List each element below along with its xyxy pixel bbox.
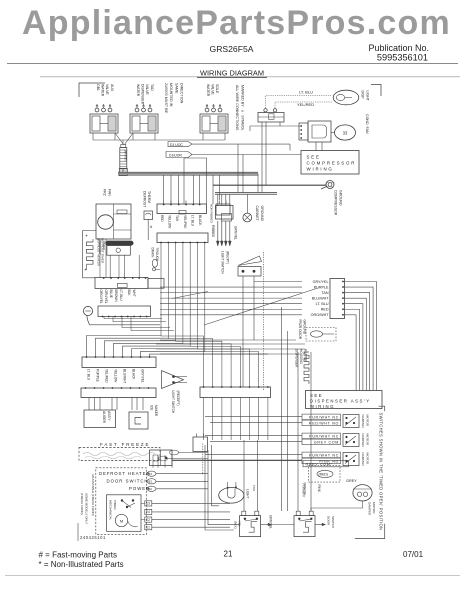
svg-text:33: 33 xyxy=(343,130,348,135)
svg-text:B3: B3 xyxy=(148,480,152,484)
svg-text:GRN/YEL: GRN/YEL xyxy=(234,226,238,240)
svg-text:GREY: GREY xyxy=(346,479,357,483)
svg-text:DAMPER: DAMPER xyxy=(361,453,365,467)
svg-text:ORG/WHT: ORG/WHT xyxy=(311,313,330,317)
svg-text:TAN: TAN xyxy=(252,485,256,491)
svg-text:# = Fast-moving Parts: # = Fast-moving Parts xyxy=(39,551,117,560)
svg-text:GRY/YEL: GRY/YEL xyxy=(313,280,329,284)
svg-text:BLU/WHT: BLU/WHT xyxy=(123,369,127,383)
svg-text:GRY/YEL: GRY/YEL xyxy=(141,369,145,383)
svg-text:COMPRESSOR: COMPRESSOR xyxy=(334,190,338,216)
svg-text:BLUE: BLUE xyxy=(109,290,113,298)
svg-text:B4: B4 xyxy=(148,472,152,476)
svg-text:GROUND: GROUND xyxy=(338,190,342,206)
svg-text:21000S MUST BE: 21000S MUST BE xyxy=(164,83,168,114)
svg-text:FRZ: FRZ xyxy=(103,189,107,197)
svg-text:ICE: ICE xyxy=(150,405,154,410)
svg-text:PUR/WHT: PUR/WHT xyxy=(302,484,306,498)
svg-text:WATER: WATER xyxy=(206,84,210,97)
svg-text:PUR/WHT NC: PUR/WHT NC xyxy=(309,453,339,457)
svg-text:LT. BLU: LT. BLU xyxy=(316,302,329,306)
svg-text:OBL: OBL xyxy=(96,84,100,91)
svg-text:D1/UOR: D1/UOR xyxy=(169,154,182,158)
svg-text:COND. FAN: COND. FAN xyxy=(365,114,369,134)
svg-text:TAN: TAN xyxy=(175,215,179,222)
svg-text:TAN: TAN xyxy=(321,291,328,295)
svg-text:(RECEPT): (RECEPT) xyxy=(176,391,180,406)
svg-text:GROUND: GROUND xyxy=(260,206,264,222)
svg-text:SEE: SEE xyxy=(307,155,321,160)
svg-text:DISPENSER ASS'Y: DISPENSER ASS'Y xyxy=(310,399,371,404)
svg-text:FRZR DOOR: FRZR DOOR xyxy=(298,320,302,340)
svg-text:PURPLE: PURPLE xyxy=(96,369,100,382)
svg-text:TAD: TAD xyxy=(150,84,154,91)
svg-text:MOTOR: MOTOR xyxy=(372,502,376,514)
svg-text:YEL/PNK: YEL/PNK xyxy=(183,215,187,229)
svg-text:VALVE: VALVE xyxy=(211,84,215,95)
svg-text:BLACK: BLACK xyxy=(198,215,202,226)
svg-text:PINK: PINK xyxy=(317,485,321,493)
svg-text:SWITCH: SWITCH xyxy=(331,516,335,528)
svg-text:GRN/YEL: GRN/YEL xyxy=(104,290,108,304)
svg-text:GRN/YEL: GRN/YEL xyxy=(269,515,273,529)
svg-text:DISP: DISP xyxy=(361,91,365,100)
svg-text:LIGHT: LIGHT xyxy=(246,489,250,498)
svg-text:(BLK): (BLK) xyxy=(234,521,238,529)
svg-text:SWITCHES SHOWN IN THE 'TIMED O: SWITCHES SHOWN IN THE 'TIMED OPEN' POSIT… xyxy=(379,413,384,531)
svg-text:MOTOR: MOTOR xyxy=(365,453,369,465)
svg-text:SOME MODELS ONLY: SOME MODELS ONLY xyxy=(84,493,88,524)
svg-text:M: M xyxy=(120,518,123,523)
svg-text:TROUGH: TROUGH xyxy=(155,248,159,263)
svg-text:DOOR SWITCH: DOOR SWITCH xyxy=(107,479,149,484)
svg-text:MOTOR: MOTOR xyxy=(365,415,369,427)
svg-text:BROWN: BROWN xyxy=(114,290,118,303)
svg-text:E4: E4 xyxy=(146,510,150,514)
svg-text:FAST FREEZE: FAST FREEZE xyxy=(100,442,150,447)
svg-text:DAMPER: DAMPER xyxy=(361,434,365,448)
svg-text:WATER: WATER xyxy=(136,84,140,97)
svg-text:YEL: YEL xyxy=(238,521,242,527)
svg-text:RED: RED xyxy=(160,215,164,222)
svg-text:WIRING DIAGRAM: WIRING DIAGRAM xyxy=(200,69,264,78)
svg-text:MAKER: MAKER xyxy=(154,405,158,417)
svg-text:DOOR: DOOR xyxy=(327,516,331,526)
svg-text:DEFROST: DEFROST xyxy=(143,191,147,207)
svg-text:RED/WHT NO: RED/WHT NO xyxy=(309,421,339,425)
svg-text:ASS'Y: ASS'Y xyxy=(107,411,111,421)
svg-text:D1 UOC: D1 UOC xyxy=(170,143,183,147)
svg-text:GREY COM*: GREY COM* xyxy=(306,463,333,467)
svg-text:WIRING: WIRING xyxy=(310,404,335,409)
svg-text:DAMPER: DAMPER xyxy=(361,415,365,429)
svg-text:B2: B2 xyxy=(148,487,152,491)
svg-text:CABINET: CABINET xyxy=(255,206,259,222)
svg-text:MOTOR: MOTOR xyxy=(365,434,369,446)
svg-text:AppliancePartsPros.com: AppliancePartsPros.com xyxy=(22,4,451,42)
svg-text:WHT: WHT xyxy=(132,290,136,297)
svg-text:ORG/YEL: ORG/YEL xyxy=(99,290,103,304)
svg-text:NON-RIBBED: NON-RIBBED xyxy=(210,204,214,224)
svg-text:AUX: AUX xyxy=(110,84,114,92)
svg-text:TIMER: TIMER xyxy=(102,241,106,251)
svg-text:E2: E2 xyxy=(146,518,150,522)
svg-text:07/01: 07/01 xyxy=(403,550,424,559)
svg-text:DISPENSER: DISPENSER xyxy=(141,84,145,105)
svg-text:MOUNTED IN: MOUNTED IN xyxy=(169,83,173,107)
svg-text:FAN: FAN xyxy=(107,189,111,196)
svg-text:AUGER: AUGER xyxy=(102,411,106,424)
svg-text:DIRECTION: DIRECTION xyxy=(180,83,184,104)
svg-text:YEL/RED: YEL/RED xyxy=(105,369,109,383)
svg-text:LT. BLU: LT. BLU xyxy=(190,215,194,227)
svg-text:DEFROST HEATER: DEFROST HEATER xyxy=(99,471,150,476)
svg-text:COMPRESSOR: COMPRESSOR xyxy=(307,161,357,166)
svg-text:ADJUSTABLE (FRESH FOOD): ADJUSTABLE (FRESH FOOD) xyxy=(91,474,95,516)
svg-text:E1: E1 xyxy=(146,526,150,530)
svg-text:TIMER: TIMER xyxy=(113,500,117,510)
svg-text:(RED): (RED) xyxy=(319,473,328,477)
svg-text:5995356101: 5995356101 xyxy=(377,53,428,63)
svg-text:MARKED BY · o · SYMBOL: MARKED BY · o · SYMBOL xyxy=(240,85,244,131)
svg-text:(FRESH FOOD): (FRESH FOOD) xyxy=(80,493,84,515)
svg-text:WIRING: WIRING xyxy=(307,167,334,172)
svg-text:LIGHT SWITCH: LIGHT SWITCH xyxy=(171,391,175,414)
svg-text:WATER: WATER xyxy=(101,84,105,97)
svg-text:E3: E3 xyxy=(146,502,150,506)
svg-text:BLK: BLK xyxy=(127,290,131,297)
svg-text:DAMPER: DAMPER xyxy=(368,502,372,516)
svg-text:BLACK: BLACK xyxy=(132,369,136,380)
svg-text:YELLOW: YELLOW xyxy=(168,215,172,228)
svg-text:VALVE: VALVE xyxy=(145,84,149,95)
svg-text:SAME: SAME xyxy=(174,83,178,94)
svg-text:DRAIN: DRAIN xyxy=(151,248,155,259)
svg-text:Publication No.: Publication No. xyxy=(368,43,429,53)
svg-text:240425101: 240425101 xyxy=(80,535,106,540)
svg-text:SOLE: SOLE xyxy=(215,84,219,94)
svg-text:LIGHT: LIGHT xyxy=(365,91,369,102)
svg-text:PUR/WHT NC: PUR/WHT NC xyxy=(309,415,339,419)
svg-text:RED: RED xyxy=(321,308,329,312)
svg-text:GRS26F5A: GRS26F5A xyxy=(210,44,254,54)
svg-text:GREY COM: GREY COM xyxy=(314,440,339,444)
svg-text:LT. BLU: LT. BLU xyxy=(299,90,313,95)
svg-text:21: 21 xyxy=(224,550,233,559)
svg-text:MECHANICAL: MECHANICAL xyxy=(109,500,113,521)
svg-text:LT. BLU: LT. BLU xyxy=(119,290,123,302)
svg-text:YELLOW: YELLOW xyxy=(114,369,118,382)
svg-text:* = Non-Illustrated Parts: * = Non-Illustrated Parts xyxy=(39,560,124,569)
svg-text:LIGHT SWITCH: LIGHT SWITCH xyxy=(221,251,225,274)
svg-text:VALVE: VALVE xyxy=(105,84,109,95)
svg-text:HOUSING: HOUSING xyxy=(299,349,303,364)
svg-text:PUR/WHT NC: PUR/WHT NC xyxy=(309,434,339,438)
svg-text:YEL/RED: YEL/RED xyxy=(297,102,314,107)
svg-text:LT. BLU: LT. BLU xyxy=(87,369,91,381)
svg-text:BLU/WHT: BLU/WHT xyxy=(312,297,329,301)
svg-text:ALL WIRE CONNECTIONS: ALL WIRE CONNECTIONS xyxy=(235,85,239,131)
svg-text:(RECPT): (RECPT) xyxy=(225,251,229,264)
svg-text:RIBBED: RIBBED xyxy=(211,225,215,238)
svg-text:WATER: WATER xyxy=(124,150,128,161)
svg-text:SEE: SEE xyxy=(310,393,323,398)
svg-text:THERM: THERM xyxy=(147,191,151,203)
